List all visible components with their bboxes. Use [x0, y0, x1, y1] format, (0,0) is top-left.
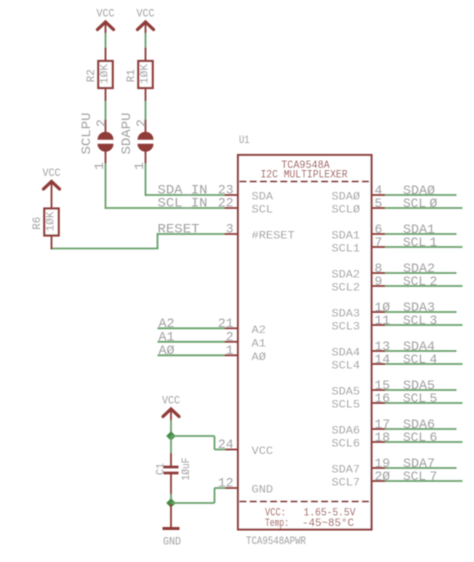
svg-text:SCL6: SCL6	[332, 439, 361, 451]
svg-text:1ØK: 1ØK	[139, 64, 151, 84]
svg-text:SCL: SCL	[252, 205, 274, 217]
svg-text:4: 4	[430, 352, 438, 367]
svg-text:SCL4: SCL4	[332, 361, 361, 373]
svg-text:R2: R2	[86, 69, 98, 82]
svg-text:SDA: SDA	[252, 192, 274, 204]
svg-text:SDA2: SDA2	[332, 270, 361, 282]
svg-text:SCL: SCL	[403, 196, 426, 211]
svg-text:Temp:: Temp:	[265, 518, 289, 530]
svg-text:SCL: SCL	[403, 430, 426, 445]
svg-text:3: 3	[430, 313, 438, 328]
svg-text:SCLØ: SCLØ	[332, 205, 361, 217]
svg-text:SDA3: SDA3	[332, 309, 361, 321]
svg-text:U1: U1	[239, 135, 250, 147]
svg-text:2: 2	[94, 119, 109, 127]
svg-text:GND: GND	[252, 485, 274, 497]
svg-text:SDA4: SDA4	[332, 348, 361, 360]
svg-text:SCL2: SCL2	[332, 283, 361, 295]
svg-text:5: 5	[375, 196, 383, 211]
svg-text:SDA6: SDA6	[332, 426, 361, 438]
svg-text:SDA5: SDA5	[332, 387, 361, 399]
svg-text:SDAPU: SDAPU	[119, 113, 134, 155]
svg-text:#RESET: #RESET	[252, 231, 296, 243]
svg-text:1ØuF: 1ØuF	[181, 458, 193, 481]
svg-text:SCL: SCL	[403, 391, 426, 406]
svg-text:-45~85°C: -45~85°C	[302, 518, 354, 530]
svg-text:2: 2	[134, 119, 149, 127]
svg-text:VCC: VCC	[252, 446, 274, 458]
svg-text:9: 9	[375, 274, 383, 289]
svg-text:SCL7: SCL7	[332, 478, 361, 490]
svg-text:SCL3: SCL3	[332, 322, 361, 334]
svg-text:1: 1	[226, 343, 234, 358]
svg-text:VCC: VCC	[137, 9, 155, 21]
svg-text:18: 18	[375, 430, 391, 445]
svg-text:SCL1: SCL1	[332, 244, 361, 256]
svg-text:VCC: VCC	[43, 168, 61, 180]
svg-text:7: 7	[430, 469, 438, 484]
svg-text:C1: C1	[156, 463, 168, 475]
svg-text:SCL5: SCL5	[332, 400, 361, 412]
svg-text:VCC: VCC	[162, 396, 180, 408]
svg-text:RESET: RESET	[158, 222, 200, 237]
svg-text:R1: R1	[126, 69, 138, 82]
svg-text:AØ: AØ	[159, 343, 175, 358]
svg-text:Ø: Ø	[430, 196, 438, 211]
svg-text:SCL: SCL	[403, 235, 426, 250]
svg-text:SCL: SCL	[403, 313, 426, 328]
svg-text:A1: A1	[252, 338, 267, 350]
svg-text:1ØK: 1ØK	[99, 64, 111, 84]
svg-text:SCL: SCL	[403, 469, 426, 484]
svg-text:2Ø: 2Ø	[375, 469, 391, 484]
svg-text:VCC: VCC	[97, 9, 115, 21]
svg-text:11: 11	[375, 313, 391, 328]
svg-text:16: 16	[375, 391, 391, 406]
svg-text:I2C MULTIPLEXER: I2C MULTIPLEXER	[261, 170, 348, 182]
svg-text:SDA7: SDA7	[332, 465, 361, 477]
svg-text:1ØK: 1ØK	[45, 211, 57, 231]
svg-text:7: 7	[375, 235, 383, 250]
svg-text:6: 6	[430, 430, 438, 445]
svg-text:1: 1	[430, 235, 438, 250]
svg-text:SCL_IN: SCL_IN	[158, 196, 208, 211]
svg-text:5: 5	[430, 391, 438, 406]
svg-text:SDAØ: SDAØ	[332, 192, 361, 204]
svg-text:TCA9548APWR: TCA9548APWR	[246, 536, 306, 548]
svg-text:2: 2	[430, 274, 438, 289]
svg-text:A2: A2	[252, 325, 266, 337]
svg-text:3: 3	[226, 222, 234, 237]
svg-text:SCL: SCL	[403, 352, 426, 367]
svg-text:AØ: AØ	[252, 352, 267, 364]
svg-text:GND: GND	[163, 537, 181, 549]
svg-text:SDA1: SDA1	[332, 231, 361, 243]
svg-text:14: 14	[375, 352, 391, 367]
svg-text:SCLPU: SCLPU	[79, 113, 94, 155]
svg-text:R6: R6	[32, 217, 44, 230]
svg-text:SCL: SCL	[403, 274, 426, 289]
